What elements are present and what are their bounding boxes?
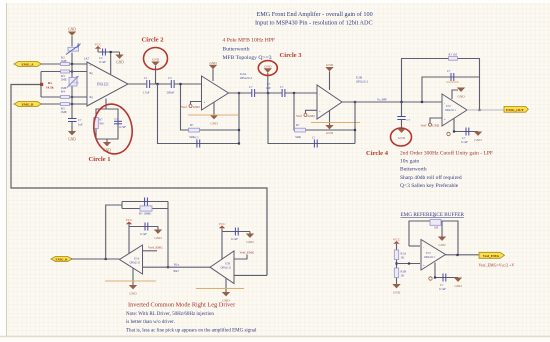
svg-text:2nd Order 300Hz Cutoff Unity g: 2nd Order 300Hz Cutoff Unity gain - LPF	[400, 149, 493, 156]
ground buffer decoupling	[454, 278, 462, 289]
wire inverting input vertical	[106, 205, 122, 259]
svg-text:C3: C3	[168, 76, 172, 80]
capacitor C11 shunt to ground (circle 4)	[397, 102, 410, 129]
wire rectangle circle1 network	[96, 109, 118, 139]
ground decoupling op2	[246, 232, 254, 245]
svg-text:U?2: U?2	[446, 105, 451, 108]
svg-text:Circle 4: Circle 4	[366, 150, 389, 157]
ground below stage2	[210, 102, 218, 126]
trimmer resistor Rg	[67, 76, 79, 88]
svg-text:1A7: 1A7	[84, 57, 90, 61]
resistor R6 340k feedback stage2	[189, 123, 200, 139]
connector Vref_EMG output	[479, 252, 505, 258]
svg-text:OPA2111: OPA2111	[424, 256, 435, 259]
resistor R2	[61, 55, 70, 65]
label U2A OPA2111	[240, 72, 253, 80]
note text LPF	[400, 149, 493, 189]
svg-text:Butterworth: Butterworth	[400, 167, 427, 173]
svg-text:Vo_HPF: Vo_HPF	[377, 97, 387, 101]
wire EMG_B to amplifier	[41, 103, 87, 105]
svg-text:Note: With RL Driver, 50Hz/60H: Note: With RL Driver, 50Hz/60Hz injectio…	[126, 312, 214, 317]
resistor R11 10M feedback bottom branch	[139, 206, 152, 215]
svg-text:Butterworth: Butterworth	[223, 47, 250, 53]
svg-text:VCC: VCC	[219, 222, 227, 226]
resistor R8 340k feedback stage3	[295, 123, 306, 139]
wire feedback right vertical stage3	[354, 102, 356, 144]
connector EMG_OUT	[504, 106, 528, 112]
wire stage1 output	[128, 83, 146, 85]
svg-text:340k: 340k	[295, 135, 302, 139]
capacitor C12 0.1uF	[461, 128, 469, 144]
wire feedback capacitor branch stage4	[422, 77, 480, 102]
svg-text:1ME: 1ME	[61, 86, 67, 90]
annotation circle 1	[90, 101, 135, 156]
svg-text:Circle 3: Circle 3	[280, 52, 303, 59]
title text block	[255, 11, 373, 26]
wire stub op-amp to circle1 network	[105, 99, 107, 110]
power VCC driver op1	[126, 218, 134, 254]
svg-text:R? 1M: R? 1M	[449, 53, 458, 57]
node Vref stub stage4	[421, 118, 443, 127]
svg-text:Vref: Vref	[296, 114, 303, 118]
ground GND top of bias trimmer	[68, 28, 76, 47]
svg-text:200nF: 200nF	[167, 91, 175, 95]
ground circle 1	[103, 142, 111, 153]
svg-text:10x gain: 10x gain	[400, 159, 419, 165]
capacitor C1 1.7uF	[143, 76, 150, 95]
svg-text:Input to MSP430 Pin - resolu: Input to MSP430 Pin - resolution of 12bi…	[255, 19, 373, 26]
svg-text:-: -	[319, 92, 320, 96]
ground above stage3	[325, 63, 333, 90]
svg-text:100k: 100k	[73, 81, 79, 85]
resistor R12 1M feedback buffer	[430, 214, 441, 229]
svg-text:590: 590	[99, 122, 104, 126]
svg-text:OPA2111: OPA2111	[130, 261, 141, 264]
ground right of C2	[115, 52, 124, 65]
ground above buffer op	[438, 221, 446, 247]
svg-text:GND: GND	[326, 131, 334, 135]
resistor R4	[61, 86, 70, 99]
svg-text:GND: GND	[129, 292, 137, 296]
svg-text:Vref_EMG=Vcc/2 +V: Vref_EMG=Vcc/2 +V	[479, 263, 515, 268]
svg-text:-: -	[204, 83, 205, 87]
ground below divider	[392, 284, 400, 295]
resistor Rx label (red)	[40, 81, 54, 89]
resistor R7 590	[94, 118, 104, 129]
svg-text:OPA2111: OPA2111	[356, 80, 369, 84]
power VCC driver op2	[219, 222, 227, 259]
ground above stage2	[209, 61, 217, 81]
wire to stage3 node	[255, 92, 282, 94]
svg-text:VCC: VCC	[393, 237, 401, 241]
svg-text:Vref_EMG: Vref_EMG	[240, 250, 255, 254]
wire VCC rail	[98, 51, 120, 53]
connector EMG_R	[51, 256, 72, 261]
capacitor C13 feedback top branch	[145, 198, 148, 206]
svg-text:INA121: INA121	[97, 83, 109, 87]
svg-text:GND: GND	[393, 291, 401, 295]
svg-text:GND: GND	[209, 61, 217, 65]
wire feedback resistor branch stage4	[402, 59, 480, 111]
svg-text:+: +	[444, 118, 446, 122]
svg-text:GND: GND	[398, 136, 406, 140]
svg-text:U?B: U?B	[225, 263, 230, 266]
svg-text:GND: GND	[454, 284, 462, 288]
page bottom edge	[0, 336, 550, 338]
svg-text:U?2: U?2	[426, 252, 431, 255]
wire feedback C branch stage2	[158, 84, 240, 144]
ground decoupling op1	[154, 227, 162, 241]
svg-text:+: +	[423, 264, 425, 268]
svg-text:GND: GND	[116, 61, 124, 65]
svg-text:GND: GND	[246, 240, 254, 244]
svg-text:GND: GND	[326, 63, 334, 67]
capacitor C8 4.7uF	[114, 117, 126, 129]
label U2B OPA2111	[356, 76, 369, 84]
node Vref stub stage3	[296, 110, 317, 118]
svg-text:GND: GND	[68, 28, 76, 32]
svg-text:GND: GND	[152, 57, 160, 61]
capacitor C3 200nF	[167, 76, 175, 95]
svg-text:0.1uF: 0.1uF	[461, 140, 468, 144]
svg-text:0.1uF: 0.1uF	[231, 237, 238, 241]
svg-text:is better than w/o driver.: is better than w/o driver.	[126, 320, 175, 325]
wire below op to decoupling row	[454, 119, 478, 132]
svg-text:Vref_EMG: Vref_EMG	[483, 254, 500, 258]
svg-text:GND: GND	[308, 114, 316, 118]
wire divider to + input	[397, 263, 421, 265]
resistor R3	[61, 70, 70, 82]
svg-text:R1x: R1x	[174, 262, 180, 266]
wire EMG_R to op-amp	[71, 258, 120, 260]
ground circled by circle 4	[397, 129, 405, 140]
ground above stage4	[452, 88, 465, 100]
capacitor C4 feedback stage2	[195, 135, 200, 147]
wire buffer output	[446, 254, 480, 256]
svg-text:Vref_EMG: Vref_EMG	[148, 245, 163, 249]
op-amp U4A OPA2111 (points left)	[120, 245, 143, 274]
capacitor C5 series output stage2	[249, 85, 255, 97]
note text HPF	[223, 38, 276, 62]
wire stage2 output	[229, 92, 252, 94]
svg-text:That is, less ac line pick up: That is, less ac line pick up appears on…	[126, 329, 257, 334]
svg-text:50k?: 50k?	[173, 269, 180, 273]
resistor R14 1M divider bottom	[394, 268, 406, 278]
svg-text:+: +	[204, 101, 206, 105]
svg-text:14.5k: 14.5k	[46, 85, 54, 89]
svg-text:1.7uF: 1.7uF	[143, 91, 150, 95]
wire bias vertical	[71, 64, 73, 119]
svg-text:EMG_A: EMG_A	[22, 63, 35, 67]
node A junction	[71, 63, 73, 65]
node Vref stub stage2	[181, 102, 202, 109]
wire cap to ground	[71, 122, 73, 132]
svg-text:1ME: 1ME	[61, 110, 67, 114]
node B junction	[71, 103, 73, 105]
ground circled by circle 2	[151, 57, 159, 84]
resistor R9 feedback stage4	[449, 53, 458, 61]
tan separator line stage3	[311, 122, 360, 124]
capacitor C9 feedback stage3	[312, 135, 317, 147]
wire C3 to stage2	[174, 83, 201, 85]
svg-text:EMG_OUT: EMG_OUT	[506, 108, 524, 112]
resistor R13 1M divider top	[394, 250, 407, 260]
svg-text:Q<3 Sallen key Preferable: Q<3 Sallen key Preferable	[400, 182, 459, 189]
page border left	[6, 3, 8, 337]
ground right stage4 bottom	[474, 132, 482, 143]
wire feedback to op1 inverting input	[167, 209, 169, 268]
wire cap to op-amp stage3	[285, 92, 317, 94]
svg-text:1uE: 1uE	[266, 86, 271, 90]
svg-text:0.1uF: 0.1uF	[439, 287, 446, 291]
wire stage3 output to stage4	[342, 101, 442, 103]
wire lower input pin op2 to long loop	[234, 274, 267, 276]
svg-text:1uF: 1uF	[78, 123, 83, 127]
net label R1x 50k	[173, 262, 180, 273]
svg-text:VCC: VCC	[95, 42, 103, 46]
svg-text:OPA2111: OPA2111	[221, 266, 232, 269]
svg-text:1ME: 1ME	[61, 59, 67, 63]
op-amp U2B OPA2111	[317, 85, 342, 119]
tan separator line op2	[196, 288, 244, 290]
wire EMG_A to amplifier	[41, 63, 87, 65]
connector EMG_A	[14, 61, 42, 66]
svg-text:EMG Front End Amplifer - ove: EMG Front End Amplifer - overall gain of…	[257, 11, 373, 18]
svg-text:Vref: Vref	[421, 123, 428, 127]
svg-text:Sharp 40db roll off required: Sharp 40db roll off required	[400, 174, 462, 181]
svg-text:GND: GND	[154, 236, 162, 240]
capacitor C14 0.1uF	[140, 223, 148, 237]
tan separator line stage2	[188, 114, 238, 116]
svg-text:U?A: U?A	[134, 258, 139, 261]
svg-text:Circle 1: Circle 1	[89, 156, 111, 163]
op-amp U2A OPA2111	[202, 76, 229, 110]
wire stem to ground circle1	[106, 139, 108, 142]
wire feedback into inverting input	[409, 245, 420, 247]
gain network box wires	[41, 72, 87, 98]
svg-text:GND: GND	[264, 64, 272, 68]
capacitor C6 series input stage3	[280, 85, 285, 97]
wire gain node to RL driver (long left loop)	[11, 85, 267, 276]
annotation circle 2	[144, 48, 168, 70]
svg-text:1M: 1M	[434, 226, 439, 230]
node divider mid	[395, 262, 397, 264]
power VCC buffer divider	[393, 237, 401, 284]
svg-text:Circle 2: Circle 2	[142, 37, 165, 44]
tan separator line op1	[105, 280, 156, 282]
svg-text:EMG_B: EMG_B	[22, 103, 35, 107]
wire feedback loop buffer	[409, 221, 458, 255]
svg-text:GND: GND	[474, 138, 482, 142]
capacitor C7	[68, 118, 83, 127]
op-amp U5 OPA2111 buffer	[421, 240, 446, 271]
svg-text:OPA2111: OPA2111	[445, 109, 456, 112]
trimmer resistor R1	[66, 42, 82, 55]
label C 1uF node	[266, 82, 271, 90]
ground below C7	[68, 131, 76, 142]
wire feedback R branch stage3	[294, 93, 355, 130]
svg-text:+: +	[319, 110, 321, 114]
ground below op2	[222, 279, 230, 303]
heading EMG REFERENCE BUFFER	[401, 212, 465, 218]
wire feedback right vertical stage2	[238, 93, 240, 144]
wire trimmer to node A	[71, 53, 73, 65]
svg-text:-: -	[423, 246, 424, 250]
svg-text:0.1uF: 0.1uF	[99, 60, 106, 64]
wire between HPF caps	[150, 83, 171, 85]
capacitor C15 0.1uF	[231, 228, 238, 242]
svg-text:GND: GND	[457, 95, 465, 99]
op-amp U4B OPA2111 (points left)	[210, 251, 234, 284]
feedback loop rectangle wires	[122, 202, 168, 209]
wire lower input pin op1	[143, 266, 211, 268]
node zero symbol left	[447, 132, 450, 135]
wire below buffer op to decoupling	[435, 263, 458, 278]
svg-text:Inverted Common Mode Right Leg: Inverted Common Mode Right Leg Driver	[128, 302, 236, 309]
svg-text:R4: R4	[61, 89, 65, 93]
wire decoupling row op2	[222, 231, 250, 233]
svg-text:GND: GND	[439, 243, 447, 247]
svg-text:OPA2111: OPA2111	[240, 76, 253, 80]
ground below stage3	[325, 111, 333, 135]
ground circled by circle 3	[264, 64, 272, 93]
node rail junctions	[71, 70, 73, 72]
wire upper input pin op1 / node Vref_EMG stub	[143, 245, 164, 251]
svg-text:GND: GND	[193, 105, 201, 109]
op-amp U1 INA121	[84, 57, 129, 107]
resistor R5	[61, 103, 70, 114]
wire feedback R branch stage2	[181, 84, 240, 130]
connector EMG_B	[14, 101, 42, 106]
ground below op1	[129, 268, 137, 296]
annotation circle 4	[391, 128, 412, 146]
svg-text:-: -	[444, 101, 445, 105]
capacitor C10 feedback stage4	[446, 69, 459, 82]
annotation circle 3	[258, 61, 277, 76]
wire V+ pin stub	[110, 52, 112, 74]
svg-text:-: -	[90, 103, 91, 106]
svg-text:MFB Topology Q>=3: MFB Topology Q>=3	[223, 55, 272, 61]
wire decoupling row op1	[129, 226, 158, 228]
svg-text:VCC: VCC	[126, 218, 134, 222]
svg-text:Vref: Vref	[181, 105, 188, 109]
svg-text:EMG_R: EMG_R	[56, 258, 69, 262]
wire feedback C branch stage3	[268, 93, 355, 144]
capacitor C2 0.1uF	[99, 49, 106, 64]
svg-text:R? 10ME: R? 10ME	[139, 211, 151, 215]
op-amp U3 OPA2111	[442, 94, 467, 126]
wire upper input pin op2 / node Vref_EMG stub	[234, 250, 255, 259]
svg-text:4.7uF: 4.7uF	[119, 125, 126, 129]
power VCC stage1	[95, 42, 103, 52]
svg-text:C1: C1	[144, 76, 148, 80]
svg-text:GND: GND	[432, 123, 440, 127]
capacitor C16 0.1uF buffer	[439, 274, 446, 291]
svg-text:0.1uF: 0.1uF	[140, 232, 147, 236]
svg-text:GND: GND	[68, 138, 76, 142]
svg-text:4 Pole MFB 10Hz HPF: 4 Pole MFB 10Hz HPF	[223, 38, 276, 44]
wire stage4 output	[467, 109, 504, 111]
svg-text:1ME: 1ME	[61, 78, 67, 82]
svg-text:GND: GND	[210, 122, 218, 126]
node zero symbol buffer	[429, 277, 432, 280]
